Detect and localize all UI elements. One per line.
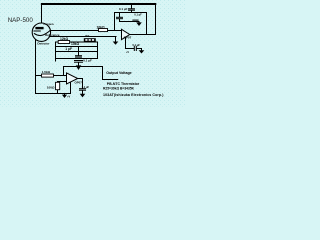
svg-text:OP07: OP07 <box>75 81 83 85</box>
svg-text:OP07: OP07 <box>124 35 132 39</box>
svg-text:+V: +V <box>67 95 71 99</box>
svg-text:Output Voltage: Output Voltage <box>106 71 132 75</box>
svg-text:0.1 µF: 0.1 µF <box>119 7 128 11</box>
svg-text:+V: +V <box>126 51 129 54</box>
svg-text:10kΩ: 10kΩ <box>71 42 80 46</box>
svg-text:0.1 µF: 0.1 µF <box>82 85 90 89</box>
svg-text:1 µF: 1 µF <box>65 47 72 51</box>
svg-text:PB-NTC Thermistor: PB-NTC Thermistor <box>107 82 140 86</box>
svg-text:Rth: Rth <box>85 35 90 38</box>
svg-text:12kΩ: 12kΩ <box>60 37 69 41</box>
svg-text:1.5kΩ: 1.5kΩ <box>42 70 51 74</box>
svg-text:compen.: compen. <box>44 23 55 26</box>
svg-text:Detector: Detector <box>37 41 50 45</box>
svg-text:10kΩ: 10kΩ <box>97 25 106 29</box>
svg-text:100Ω: 100Ω <box>47 86 55 90</box>
svg-text:103AT(Ishizuka Electronics Cor: 103AT(Ishizuka Electronics Corp.) <box>103 93 164 97</box>
svg-text:NAP-500: NAP-500 <box>8 17 34 24</box>
svg-text:0.1 µF: 0.1 µF <box>134 12 142 16</box>
svg-text:0.1 µF: 0.1 µF <box>83 59 92 63</box>
svg-text:R25=30kΩ B=3435K: R25=30kΩ B=3435K <box>103 87 135 91</box>
svg-text:Reference: Reference <box>45 33 60 37</box>
svg-text:0.1 µF: 0.1 µF <box>133 43 141 47</box>
